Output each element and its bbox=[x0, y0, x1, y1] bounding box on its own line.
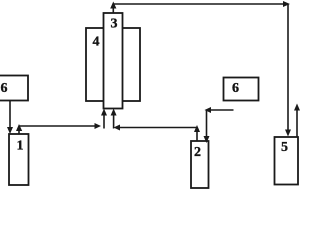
wire 6R vertical down to box2 bbox=[206, 110, 208, 137]
box 5 bbox=[275, 137, 299, 185]
svg-text:2: 2 bbox=[194, 145, 201, 160]
wire right horizontal center to box2 bbox=[118, 127, 197, 129]
wire center-left vertical up to box3 bbox=[103, 112, 105, 129]
arrow up into box3 bottom right bbox=[111, 109, 117, 116]
wire box2 up stub bbox=[196, 130, 198, 142]
svg-text:4: 4 bbox=[93, 35, 100, 50]
arrow left at corner of 6R wire bbox=[205, 107, 212, 113]
box 6 left bbox=[0, 76, 28, 101]
svg-text:6: 6 bbox=[232, 81, 239, 96]
wire right vertical down to box5 bbox=[287, 4, 289, 130]
svg-text:1: 1 bbox=[17, 139, 24, 154]
wire box1 up stub bbox=[18, 128, 20, 134]
arrow down into box 1 bbox=[7, 127, 13, 134]
wire 6R area horizontal bbox=[207, 109, 234, 111]
arrow down into box2 top bbox=[204, 136, 210, 143]
wire left horizontal box1 to center bbox=[19, 125, 97, 127]
arrow up at box2 stub corner bbox=[194, 125, 200, 132]
arrow left at start of right horizontal bbox=[114, 125, 121, 131]
arrow up into top wire at box3 bbox=[110, 2, 116, 9]
box 1 bbox=[9, 134, 29, 185]
wire box3 top stub bbox=[112, 6, 114, 13]
box 6 right bbox=[224, 78, 259, 101]
arrow up at box1 stub corner bbox=[16, 124, 22, 131]
svg-text:5: 5 bbox=[281, 140, 288, 155]
svg-text:3: 3 bbox=[111, 17, 118, 32]
arrow down into box 5 bbox=[285, 130, 291, 137]
wire box5 up stub bbox=[296, 109, 298, 137]
wire top horizontal box3 to box5 bbox=[113, 3, 288, 5]
svg-text:6: 6 bbox=[1, 81, 8, 96]
arrow right at end of left horizontal bbox=[95, 123, 102, 129]
arrow up into box3 bottom left bbox=[101, 109, 107, 116]
box 3 bbox=[104, 13, 123, 109]
arrow right at top-right corner bbox=[283, 1, 290, 7]
wire box6L down to box1 bbox=[9, 101, 11, 129]
arrow up from box5 stub bbox=[294, 104, 300, 111]
wire center-right vertical up to box3 bbox=[113, 112, 115, 129]
box 2 bbox=[191, 141, 209, 188]
box 4 bbox=[86, 28, 140, 101]
